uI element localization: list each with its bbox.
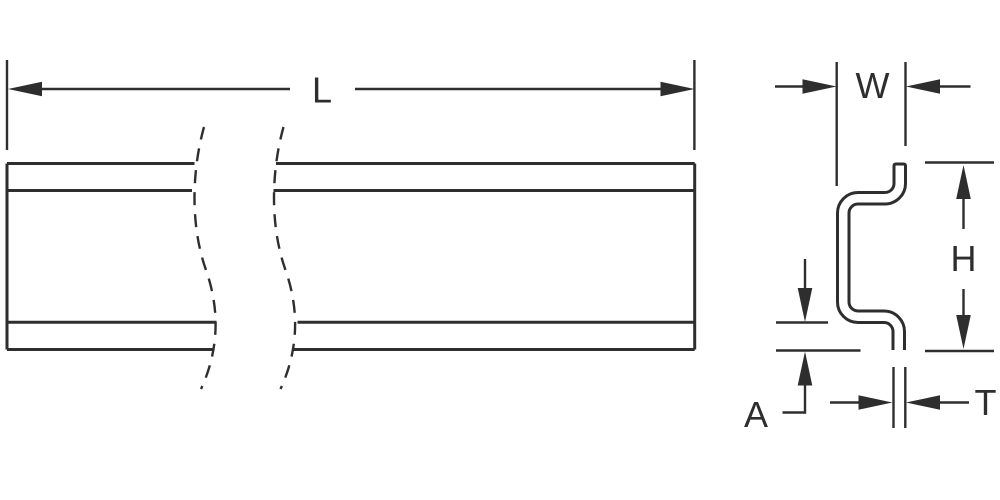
break line left (dashed S-curve)	[195, 127, 216, 389]
dimension L: right arrowhead	[661, 82, 695, 97]
dimension W: left arrow shaft	[775, 85, 804, 87]
rail top edge right segment	[276, 162, 695, 165]
dimension W: left arrowhead	[803, 79, 837, 94]
svg-text:W: W	[856, 65, 890, 106]
rail upper inner line right segment	[274, 189, 695, 192]
dimension A: upper arrowhead (points down)	[798, 288, 813, 322]
dimension T: right extension line	[904, 367, 906, 428]
rail bottom edge left segment	[7, 348, 213, 351]
dimension L: right extension line	[693, 60, 695, 150]
rail bottom edge right segment	[294, 348, 695, 351]
dimension L: left arrowhead	[8, 82, 42, 97]
rail lower inner line right segment	[298, 321, 695, 324]
dimension W: left extension line	[836, 62, 838, 186]
dimension H: bottom extension line	[925, 350, 994, 352]
dimension A: upper arrow shaft	[804, 259, 806, 289]
dimension L: dimension line left part	[40, 88, 290, 90]
dimension A: lower arrow shaft and leader	[783, 385, 806, 413]
dimension H: lower arrowhead	[956, 315, 971, 349]
dimension T: left arrowhead	[859, 395, 893, 410]
dimension L: dimension line right part	[355, 88, 662, 90]
svg-text:T: T	[975, 382, 997, 423]
break line right (dashed S-curve)	[274, 127, 295, 389]
dimension H: top extension line	[925, 161, 994, 163]
rail top edge left segment	[7, 162, 195, 165]
dimension L: left extension line	[6, 60, 8, 150]
rail left end edge	[6, 164, 9, 350]
dimension A: top extension line	[776, 321, 828, 323]
rail upper inner line left segment	[7, 189, 192, 192]
dimension H: upper arrowhead	[956, 165, 971, 199]
svg-text:A: A	[744, 394, 768, 435]
dimension T: left extension line	[892, 367, 894, 428]
rail lower inner line left segment	[7, 321, 217, 324]
svg-text:L: L	[312, 70, 332, 111]
cross-section profile: face A (lip-left / step-upper / web-left / step-lower / lip-left)	[838, 166, 895, 350]
dimension W: right arrowhead	[906, 79, 940, 94]
svg-text:H: H	[951, 238, 977, 279]
cross-section profile: face B (lip-right / step-lower / web-right / step-upper / lip-right)	[849, 166, 906, 350]
dimension A: lower arrowhead (points up)	[798, 352, 813, 386]
dimension W: right arrow shaft	[939, 85, 971, 87]
dimension T: right arrowhead	[906, 395, 940, 410]
dimension T: left arrow shaft	[830, 401, 860, 403]
dimension H: lower arrow shaft	[962, 289, 964, 316]
rail right end edge	[693, 164, 696, 350]
dimension H: upper arrow shaft	[962, 198, 964, 229]
dimension W: right extension line	[904, 62, 906, 146]
dimension T: right arrow shaft	[939, 401, 969, 403]
dimension A: bottom extension line	[776, 349, 861, 351]
cross-section profile: top lip end edge	[894, 164, 906, 166]
